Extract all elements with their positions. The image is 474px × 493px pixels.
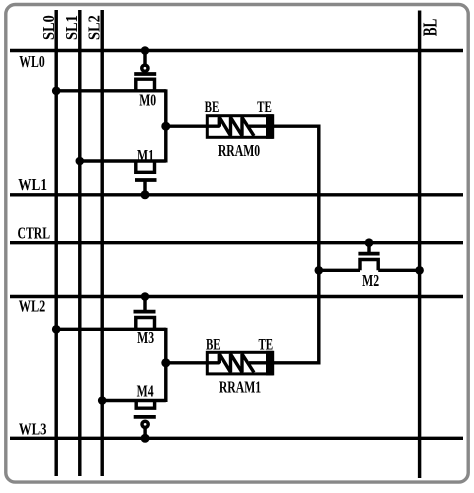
- wire M4 drain up: [164, 363, 167, 402]
- wire M2 drain to BL: [378, 269, 419, 272]
- wire SL0 to M3 source: [56, 328, 166, 331]
- junction node B: [315, 266, 324, 275]
- transistor M3 gate stem: [143, 297, 146, 312]
- svg-text:RRAM0: RRAM0: [218, 142, 260, 161]
- transistor M0 gate stem: [143, 51, 146, 65]
- svg-text:SL1: SL1: [63, 15, 81, 40]
- memristor RRAM0 box: [207, 116, 272, 138]
- transistor M1 channel: [136, 161, 155, 172]
- svg-text:M0: M0: [139, 91, 156, 110]
- svg-text:WL3: WL3: [19, 421, 47, 439]
- net WL0 wire: [10, 49, 463, 52]
- transistor M0 channel: [136, 79, 155, 91]
- junction on WL1 at M1 gate: [141, 190, 150, 199]
- node A junction M0/M1 drain to RRAM0: [161, 122, 170, 131]
- svg-text:WL2: WL2: [19, 298, 46, 316]
- junction on SL1: [76, 157, 85, 166]
- wire SL0 to M0 source: [56, 89, 166, 92]
- net SL2 wire: [100, 10, 103, 476]
- transistor M1 gate stem: [143, 180, 146, 195]
- node C junction M3/M4 drain to RRAM1: [161, 358, 170, 367]
- memristor RRAM0 right stub: [249, 124, 268, 127]
- svg-text:M4: M4: [137, 383, 154, 402]
- wire SL1 to M1 source: [80, 159, 166, 162]
- transistor M2 gate bar: [358, 252, 379, 256]
- junction on WL3 at M4 gate: [141, 434, 150, 443]
- transistor M2 channel: [360, 260, 378, 271]
- svg-text:M2: M2: [362, 272, 379, 291]
- transistor M4 gate bubble: [142, 421, 148, 427]
- svg-text:BE: BE: [206, 335, 221, 352]
- svg-text:M3: M3: [137, 329, 154, 348]
- net SL0 wire: [54, 10, 57, 476]
- net WL1 wire: [10, 193, 463, 196]
- wire M1 drain up: [164, 126, 167, 162]
- junction on WL2 at M3 gate: [141, 292, 150, 301]
- memristor RRAM0 zigzag: [206, 117, 254, 136]
- transistor M2 gate stem: [367, 243, 370, 254]
- svg-text:BE: BE: [205, 98, 220, 115]
- transistor M4 gate bar: [134, 415, 156, 419]
- net WL2 wire: [10, 295, 463, 298]
- memristor RRAM1 right stub: [249, 361, 268, 364]
- transistor M0 gate bubble: [142, 65, 148, 71]
- wire M0 drain down: [164, 89, 167, 126]
- junction on SL0 lower: [52, 325, 61, 334]
- net CTRL wire: [10, 241, 463, 244]
- svg-text:CTRL: CTRL: [18, 225, 51, 244]
- transistor M1 gate bar: [135, 178, 157, 182]
- wire node B to RRAM1 TE: [274, 270, 319, 363]
- svg-text:WL1: WL1: [18, 176, 47, 195]
- wire M3 drain down: [164, 328, 167, 363]
- transistor M0 gate bar: [134, 72, 156, 76]
- memristor RRAM1 box: [207, 352, 272, 374]
- wire node C to RRAM1 BE: [166, 361, 206, 364]
- junction on SL0: [52, 87, 61, 96]
- transistor M4 gate stem: [143, 429, 146, 439]
- memristor RRAM1 zigzag: [206, 354, 254, 373]
- net SL1 wire: [78, 10, 81, 476]
- svg-text:BL: BL: [419, 19, 441, 37]
- svg-text:TE: TE: [257, 98, 272, 115]
- svg-text:TE: TE: [258, 335, 273, 352]
- net BL wire: [418, 11, 421, 479]
- junction on WL0 at M0 gate: [141, 46, 150, 55]
- junction on CTRL at M2 gate: [365, 238, 374, 247]
- wire node A to RRAM0 BE: [166, 124, 206, 127]
- svg-text:SL0: SL0: [40, 15, 58, 40]
- transistor M3 gate bar: [134, 310, 156, 314]
- wire RRAM0 TE to node B: [274, 126, 319, 270]
- memristor RRAM1 TE electrode: [266, 351, 273, 376]
- wire SL2 to M4 source: [102, 399, 166, 402]
- svg-text:M1: M1: [137, 147, 154, 166]
- transistor M3 channel: [136, 318, 155, 330]
- memristor RRAM0 TE electrode: [266, 114, 273, 139]
- junction on BL: [415, 266, 424, 275]
- wire node B to M2 source: [319, 269, 360, 272]
- svg-text:SL2: SL2: [85, 15, 103, 40]
- svg-text:WL0: WL0: [19, 53, 44, 72]
- transistor M4 channel: [136, 401, 154, 409]
- junction on SL2: [98, 396, 107, 405]
- svg-text:RRAM1: RRAM1: [219, 379, 261, 398]
- net WL3 wire: [10, 437, 463, 440]
